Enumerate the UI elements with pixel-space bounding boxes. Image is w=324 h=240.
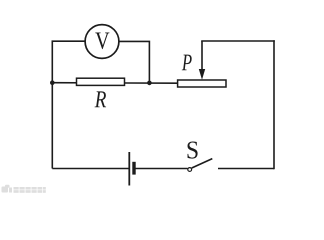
node: left junction dot [50,80,55,85]
voltmeter U1 circle [85,25,119,59]
battery cell: short thick plate [132,162,135,175]
rheostat P body [178,80,226,87]
switch S: pivot circle [188,168,192,172]
label S [188,142,198,159]
wire: right vertical side [273,41,275,169]
label V [95,33,109,50]
battery cell: long thin plate [128,152,130,186]
wire: wiper vertical drop [201,41,203,71]
wire: switch to bottom-right corner [218,168,274,170]
node: right junction dot [147,81,152,86]
wire: left branch (voltmeter left lead + left vertical side) [52,41,85,168]
resistor R body [77,78,125,85]
label P [182,55,192,71]
wire: bottom left segment to battery [52,168,128,170]
switch S: lever arm [192,159,213,168]
wire: battery to switch [134,168,188,170]
wire: top-right horizontal to wiper [202,40,274,42]
label R [95,91,107,107]
wire: main middle line (R branch to P) [52,82,178,85]
wire: voltmeter right lead and vertical down to junction [119,41,149,83]
watermark (decorative) [2,185,46,193]
wiper arrowhead on P [199,69,205,80]
